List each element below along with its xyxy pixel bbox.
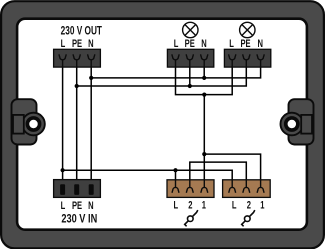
svg-text:L: L: [61, 199, 66, 212]
svg-text:PE: PE: [185, 38, 195, 51]
svg-text:230 V IN: 230 V IN: [61, 213, 97, 226]
svg-text:L: L: [232, 199, 237, 212]
svg-text:L: L: [229, 38, 234, 51]
wire: N distribution rail: [91, 60, 260, 78]
wire: switch1 L drop: [175, 170, 177, 187]
wire: L rail to switches: [63, 170, 233, 187]
svg-text:N: N: [88, 199, 94, 212]
junction switched live upper: [202, 93, 206, 97]
svg-text:PE: PE: [72, 38, 82, 51]
junction PE at lamp1: [188, 84, 192, 88]
terminal block 230V IN: [54, 180, 101, 198]
wire: traveller link terminal 2 to terminal 2: [190, 162, 247, 187]
switch S1 symbol: [185, 210, 198, 226]
wire: switched live branch to switch2 terminal 1: [204, 154, 260, 187]
junction L at feed: [61, 168, 65, 172]
wire: PE feed vertical: [76, 60, 78, 186]
wire: PE distribution rail: [77, 60, 247, 86]
svg-text:L: L: [173, 199, 178, 212]
wire: switched live lamp1-lamp2 link: [176, 60, 233, 95]
terminal block switch 2 (brown): [223, 180, 271, 198]
terminal block 230V OUT: [54, 49, 101, 67]
svg-text:230 V OUT: 230 V OUT: [61, 25, 103, 38]
lamp E2 symbol: [240, 22, 255, 37]
junction N at lamp1: [202, 76, 206, 80]
terminal block lamp 1: [167, 49, 213, 67]
wire: lamp1 N drop: [203, 60, 205, 78]
svg-text:L: L: [174, 38, 179, 51]
svg-text:2: 2: [188, 199, 192, 212]
svg-text:PE: PE: [240, 38, 250, 51]
wire: L feed vertical OUT to IN: [62, 60, 64, 186]
svg-text:N: N: [257, 38, 263, 51]
svg-text:L: L: [61, 38, 66, 51]
junction PE at feed: [75, 84, 79, 88]
wire: switched live down to switch1 terminal 1: [203, 95, 205, 188]
svg-text:1: 1: [260, 199, 264, 212]
svg-text:2: 2: [247, 199, 251, 212]
wire: N feed vertical: [90, 60, 92, 186]
wire: lamp1 PE drop: [189, 60, 191, 86]
svg-text:N: N: [201, 38, 207, 51]
junction N at feed: [89, 76, 93, 80]
terminal block switch 1 (brown): [167, 180, 214, 198]
svg-text:N: N: [88, 38, 94, 51]
terminal block lamp 2: [224, 49, 270, 67]
switch S2 symbol: [242, 210, 255, 226]
svg-text:1: 1: [202, 199, 206, 212]
lamp E1 symbol: [183, 22, 198, 37]
right mounting latch: [281, 99, 314, 144]
left mounting latch: [12, 99, 45, 144]
box inner cavity: [17, 19, 307, 230]
junction switched live lower: [202, 152, 206, 156]
svg-text:PE: PE: [72, 199, 82, 212]
junction L at switch1: [173, 168, 177, 172]
